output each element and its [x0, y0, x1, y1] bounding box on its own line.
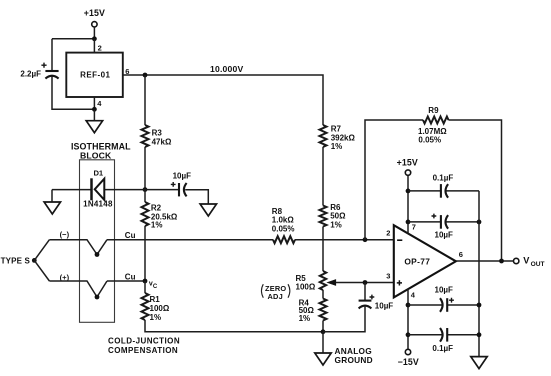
svg-text:2: 2 — [386, 229, 390, 238]
wire 10uF bottom to analog ground node — [323, 307, 365, 332]
ground (analog ground) — [315, 353, 331, 365]
wire 2.2uF branch vertical (bottom) — [52, 77, 94, 110]
svg-text:−15V: −15V — [398, 357, 419, 367]
node vC — [143, 279, 158, 290]
svg-text:COMPENSATION: COMPENSATION — [108, 346, 178, 355]
potentiometer R5 100 ohm (ZERO ADJ) — [296, 271, 327, 291]
wire 10uF to right ground — [185, 190, 208, 204]
wire 10uF row (lower) — [408, 304, 479, 306]
ground (bypass rail) — [471, 357, 487, 369]
wire 2.2uF branch vertical (top) — [51, 39, 53, 71]
svg-text:TYPE S: TYPE S — [1, 257, 31, 266]
wire 10.000V reference rail — [123, 75, 323, 125]
wire 0.1uF row (top) — [408, 190, 479, 192]
node: pin4 / 10uF — [406, 303, 411, 308]
svg-text:0.05%: 0.05% — [418, 135, 441, 144]
svg-text:1%: 1% — [299, 314, 311, 323]
wire R8 to op-amp pin 2 — [295, 239, 394, 241]
resistor R1 — [142, 281, 170, 322]
wire thermocouple (-) lead diagonal — [34, 240, 49, 261]
wire (-) lead with junction dip — [49, 240, 107, 255]
svg-text:BLOCK: BLOCK — [80, 150, 112, 160]
label COLD-JUNCTION COMPENSATION — [108, 336, 180, 355]
wire pin3 node down to 10uF — [364, 283, 366, 301]
svg-text:C: C — [153, 284, 158, 290]
node: output / feedback junction — [499, 259, 504, 264]
power terminal +15V (right) — [397, 157, 418, 175]
wire 10uF row (upper) — [408, 221, 479, 223]
svg-text:10µF: 10µF — [435, 230, 454, 239]
svg-text:1%: 1% — [331, 142, 343, 151]
wire to left ground — [51, 190, 53, 202]
resistor R3 — [142, 125, 172, 147]
svg-text:OUT: OUT — [531, 261, 545, 268]
pin 7 stub — [408, 175, 416, 234]
svg-text:R2: R2 — [151, 204, 162, 213]
wire op-amp output — [456, 260, 514, 262]
pin 2 stub of REF-01 — [94, 39, 101, 53]
node: thermocouple input — [32, 258, 37, 263]
node: pin4 / ground junction — [92, 107, 97, 112]
wire top rail to 2.2uF branch — [52, 38, 94, 40]
power terminal -15V — [398, 349, 419, 367]
op-amp U2 OP-77 — [394, 225, 456, 297]
IC U1 REF-01 voltage reference — [66, 53, 123, 97]
resistor R2 — [142, 202, 178, 230]
svg-text:ADJ: ADJ — [268, 292, 283, 301]
svg-text:100Ω: 100Ω — [296, 282, 316, 291]
svg-text:10.000V: 10.000V — [210, 64, 243, 74]
node: 10V rail / R3 junction — [143, 73, 148, 78]
pin 4 stub of REF-01 — [94, 97, 102, 109]
label ANALOG GROUND — [335, 346, 373, 365]
svg-text:0.1µF: 0.1µF — [433, 174, 454, 183]
capacitor 10uF (V- bypass) — [435, 285, 454, 311]
svg-text:47kΩ: 47kΩ — [152, 138, 172, 147]
svg-text:+15V: +15V — [84, 8, 105, 18]
wire R3 top — [144, 75, 146, 125]
svg-text:1%: 1% — [150, 313, 162, 322]
wire R5 to R4 — [322, 290, 324, 299]
wire R1 bottom to analog ground node — [145, 320, 323, 332]
capacitor 0.1uF (V+ bypass) — [433, 174, 454, 198]
svg-text:100Ω: 100Ω — [150, 304, 170, 313]
node: D1 / R3 / R2 / 10uF junction — [143, 187, 148, 192]
svg-text:10µF: 10µF — [375, 302, 394, 311]
node: 10uF / bypass rail (lower) — [477, 303, 482, 308]
svg-text:Cu: Cu — [125, 231, 136, 240]
wire R2 top — [144, 190, 146, 202]
wire D1 node to 10uF cap — [145, 189, 179, 191]
svg-text:R1: R1 — [150, 295, 161, 304]
resistor R4 — [299, 298, 327, 323]
R5 wiper arrow — [327, 280, 336, 286]
label (ZERO ADJ) — [261, 284, 289, 301]
node: 10uF / bypass rail (upper) — [477, 220, 482, 225]
diode D1 1N4148 — [83, 168, 113, 208]
svg-text:+15V: +15V — [397, 157, 418, 167]
svg-text:2.2µF: 2.2µF — [20, 69, 41, 78]
wire R7 to R6 — [322, 147, 324, 206]
svg-text:1N4148: 1N4148 — [83, 200, 113, 209]
node: pin7 / 10uF — [406, 220, 411, 225]
wire 0.1uF row (bottom) — [408, 334, 479, 336]
svg-text:10µF: 10µF — [173, 171, 192, 180]
svg-text:D1: D1 — [93, 168, 103, 177]
svg-text:GROUND: GROUND — [335, 355, 373, 365]
node: analog ground junction — [321, 329, 326, 334]
node: 0.1uF / bypass rail (bottom) — [477, 332, 482, 337]
node: pin4 / 0.1uF — [406, 332, 411, 337]
resistor R8 — [272, 207, 295, 243]
svg-text:1%: 1% — [151, 221, 163, 230]
svg-text:6: 6 — [459, 250, 463, 259]
ground (below REF-01) — [86, 121, 102, 133]
svg-text:1%: 1% — [330, 220, 342, 229]
capacitor C1 2.2uF — [20, 63, 58, 79]
wire (-) lead to R8 — [107, 239, 273, 241]
resistor R6 — [320, 203, 347, 229]
wire thermocouple (+) lead diagonal — [34, 260, 49, 281]
svg-text:R9: R9 — [428, 106, 439, 115]
svg-text:Cu: Cu — [125, 272, 136, 281]
resistor R9 — [418, 106, 449, 144]
svg-text:2: 2 — [98, 44, 102, 53]
svg-text:V: V — [523, 256, 530, 266]
node: +15V / 0.1uF — [406, 189, 411, 194]
pin 4 stub — [408, 289, 416, 350]
wire R2 bottom to vC node — [144, 226, 146, 281]
wire R4 bottom — [322, 321, 324, 332]
svg-text:10µF: 10µF — [435, 285, 454, 294]
node: inverting input / R9 feedback — [363, 237, 368, 242]
node: upper thermocouple junction — [95, 252, 100, 257]
svg-text:0.1µF: 0.1µF — [432, 344, 453, 353]
wire R3 bottom — [144, 147, 146, 190]
svg-text:OP-77: OP-77 — [404, 256, 430, 266]
wire R6 to R5 (crosses input row) — [322, 227, 324, 272]
svg-text:3: 3 — [386, 272, 390, 281]
resistor R7 — [320, 125, 356, 151]
ground (right of 10uF) — [200, 204, 216, 216]
svg-text:7: 7 — [412, 223, 416, 232]
node: +15V / pin2 junction — [92, 36, 97, 41]
wire feedback up from pin2 node — [365, 120, 423, 240]
bypass ground rail — [478, 191, 480, 357]
svg-text:COLD-JUNCTION: COLD-JUNCTION — [108, 336, 180, 345]
wire to analog ground symbol — [322, 332, 324, 353]
svg-text:REF-01: REF-01 — [80, 70, 110, 79]
node: non-inverting input / 10uF — [363, 280, 368, 285]
wire +15V terminal to node — [93, 27, 95, 39]
capacitor 10uF (V+ bypass) — [432, 214, 454, 240]
wire R5 wiper to op-amp pin 3 — [336, 282, 394, 284]
svg-text:0.05%: 0.05% — [272, 225, 295, 234]
capacitor 0.1uF (V- bypass) — [432, 328, 453, 353]
capacitor 10uF (at D1 node) — [171, 171, 191, 196]
wire D1 anode row — [52, 189, 145, 191]
wire (+) lead with junction dip — [49, 281, 107, 297]
wire R9 to output node — [449, 120, 502, 261]
isothermal block outline — [80, 160, 115, 322]
label ISOTHERMAL BLOCK — [71, 142, 131, 161]
power terminal +15V (top left) — [84, 8, 105, 27]
wire (+) lead to vC node — [107, 280, 145, 282]
wire pin4 node to ground — [93, 109, 95, 120]
output terminal VOUT — [514, 256, 545, 268]
svg-text:1.0kΩ: 1.0kΩ — [272, 216, 295, 225]
ground (left of D1) — [44, 202, 60, 214]
svg-text:R3: R3 — [152, 128, 163, 137]
capacitor 10uF (at pin 3) — [359, 295, 394, 311]
node: lower thermocouple junction — [95, 295, 100, 300]
svg-text:(−): (−) — [60, 230, 70, 239]
